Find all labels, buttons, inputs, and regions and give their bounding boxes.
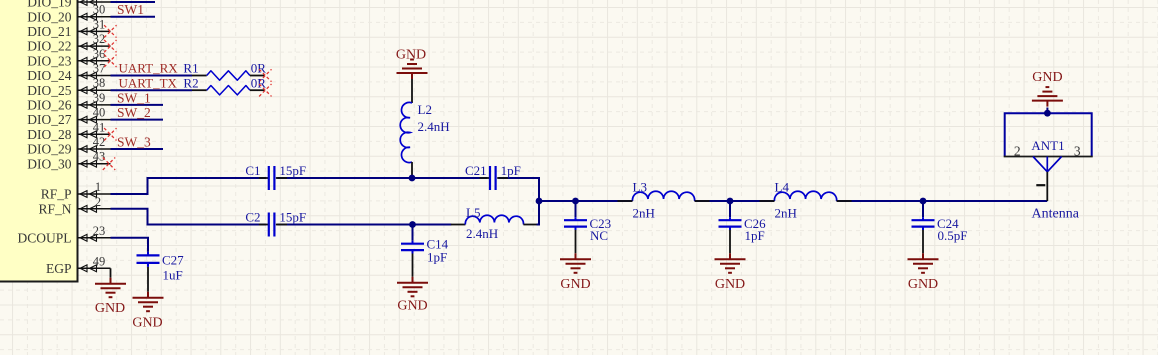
svg-text:Antenna: Antenna	[1032, 207, 1080, 222]
svg-text:DIO_25: DIO_25	[27, 83, 71, 98]
svg-text:L2: L2	[418, 102, 432, 117]
svg-text:2.4nH: 2.4nH	[466, 226, 498, 241]
svg-text:C2: C2	[245, 210, 260, 225]
svg-text:1: 1	[95, 180, 101, 194]
svg-text:15pF: 15pF	[279, 163, 306, 178]
svg-text:L5: L5	[466, 205, 480, 220]
svg-text:41: 41	[93, 120, 106, 134]
svg-text:GND: GND	[396, 48, 426, 63]
svg-text:EGP: EGP	[46, 261, 72, 276]
svg-text:GND: GND	[715, 277, 745, 292]
svg-text:C27: C27	[162, 253, 184, 268]
svg-text:2: 2	[1014, 144, 1021, 159]
svg-text:3: 3	[1074, 144, 1081, 159]
svg-text:C21: C21	[465, 163, 487, 178]
svg-text:GND: GND	[95, 301, 125, 316]
svg-text:1pF: 1pF	[745, 228, 765, 243]
svg-text:DIO_29: DIO_29	[27, 142, 71, 157]
svg-text:RF_N: RF_N	[38, 201, 71, 216]
svg-text:GND: GND	[560, 277, 590, 292]
svg-text:RF_P: RF_P	[41, 187, 72, 202]
svg-text:0.5pF: 0.5pF	[938, 228, 968, 243]
svg-text:GND: GND	[1032, 70, 1062, 85]
svg-text:42: 42	[93, 135, 106, 149]
svg-text:DIO_21: DIO_21	[27, 24, 71, 39]
svg-text:DIO_23: DIO_23	[27, 53, 71, 68]
svg-text:2.4nH: 2.4nH	[418, 119, 450, 134]
svg-text:36: 36	[93, 47, 106, 61]
svg-text:GND: GND	[132, 316, 162, 331]
svg-text:UART_RX: UART_RX	[119, 61, 179, 76]
svg-text:SW1: SW1	[117, 2, 144, 17]
svg-text:23: 23	[93, 224, 106, 238]
svg-text:NC: NC	[590, 228, 608, 243]
svg-text:1pF: 1pF	[501, 163, 521, 178]
svg-text:2: 2	[95, 195, 101, 209]
svg-text:DIO_22: DIO_22	[27, 39, 71, 54]
svg-text:L3: L3	[633, 180, 647, 195]
svg-text:GND: GND	[397, 299, 427, 314]
svg-text:31: 31	[93, 17, 106, 31]
svg-text:GND: GND	[908, 277, 938, 292]
svg-text:49: 49	[93, 254, 106, 268]
svg-text:39: 39	[93, 91, 106, 105]
svg-text:15pF: 15pF	[279, 210, 306, 225]
svg-text:DIO_19: DIO_19	[27, 0, 71, 10]
svg-text:ANT1: ANT1	[1031, 138, 1064, 153]
svg-text:30: 30	[93, 3, 106, 17]
svg-text:DIO_27: DIO_27	[27, 112, 71, 127]
svg-text:DCOUPL: DCOUPL	[17, 230, 71, 245]
svg-text:C1: C1	[245, 163, 260, 178]
svg-text:SW_2: SW_2	[117, 105, 151, 120]
svg-text:DIO_20: DIO_20	[27, 9, 71, 24]
svg-text:R1: R1	[183, 61, 198, 76]
svg-text:UART_TX: UART_TX	[119, 75, 178, 90]
svg-text:DIO_28: DIO_28	[27, 127, 71, 142]
svg-text:SW_3: SW_3	[117, 134, 151, 149]
svg-text:L4: L4	[775, 180, 790, 195]
svg-text:SW_1: SW_1	[117, 90, 151, 105]
svg-text:DIO_24: DIO_24	[27, 68, 71, 83]
svg-text:32: 32	[93, 32, 106, 46]
svg-text:R2: R2	[183, 75, 198, 90]
svg-text:40: 40	[93, 106, 106, 120]
svg-text:DIO_26: DIO_26	[27, 98, 71, 113]
svg-text:43: 43	[93, 150, 106, 164]
svg-text:1pF: 1pF	[427, 249, 447, 264]
svg-text:2nH: 2nH	[775, 206, 797, 221]
svg-text:2nH: 2nH	[633, 206, 655, 221]
svg-text:38: 38	[93, 76, 106, 90]
svg-text:37: 37	[93, 62, 106, 76]
svg-text:1uF: 1uF	[163, 268, 183, 283]
svg-text:DIO_30: DIO_30	[27, 156, 71, 171]
